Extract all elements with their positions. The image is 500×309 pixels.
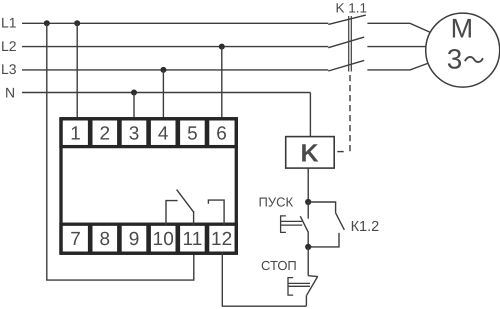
pushbutton СТОП actuator cap — [288, 278, 293, 296]
wire coil K to node A — [307, 168, 309, 202]
contact K1.2 blade — [336, 213, 345, 230]
pushbutton СТОП fixed contact tick — [308, 275, 318, 278]
contactor K1.1 blade L2 — [328, 37, 364, 48]
relay device outer box — [61, 119, 236, 253]
wire node B to СТОП — [307, 247, 309, 276]
svg-text:L2: L2 — [1, 38, 17, 54]
svg-text:7: 7 — [70, 229, 81, 250]
motor tilde symbol — [465, 57, 483, 62]
pushbutton ПУСК blade — [300, 216, 308, 232]
terminal strip bottom row dividers — [90, 224, 207, 253]
contact K1.2 top wire — [308, 202, 335, 213]
wire L1 to motor — [367, 23, 431, 32]
motor M circle — [426, 13, 500, 87]
pushbutton СТОП bottom terminal — [305, 296, 307, 307]
svg-text:N: N — [5, 84, 15, 100]
wire N to terminal 3 — [133, 93, 135, 119]
svg-text:5: 5 — [187, 124, 198, 145]
pushbutton ПУСК top terminal — [307, 202, 309, 219]
wire L2 to terminal 6 — [221, 47, 223, 118]
contact K1.2 bottom wire — [308, 233, 339, 247]
terminal strip top row dividers — [90, 119, 207, 147]
pushbutton ПУСК bottom terminal — [307, 232, 309, 247]
svg-text:2: 2 — [100, 124, 111, 145]
pushbutton СТОП blade — [306, 276, 317, 295]
svg-text:11: 11 — [183, 229, 203, 250]
wire N bus — [22, 92, 310, 94]
svg-text:3: 3 — [447, 43, 463, 74]
wire L3 to motor — [367, 63, 428, 70]
contactor K1.1 blade L3 — [328, 60, 364, 71]
wire L2 bus — [22, 46, 328, 48]
svg-text:L3: L3 — [1, 61, 17, 77]
internal changeover contact: terminal 12 fixed contact — [208, 200, 224, 225]
terminal strip bottom row box — [61, 224, 236, 253]
svg-text:L1: L1 — [1, 15, 17, 31]
wire L3 to terminal 4 — [162, 70, 164, 118]
wire L2 to motor — [367, 46, 426, 48]
junction dot node B — [305, 244, 311, 250]
internal changeover contact: terminal 10 fixed contact — [166, 201, 178, 225]
svg-text:M: M — [451, 14, 474, 44]
svg-text:12: 12 — [211, 229, 232, 250]
junction dot L3-terminal4 — [160, 67, 166, 73]
svg-text:ПУСК: ПУСК — [259, 195, 294, 210]
dash from coil K to link line — [337, 151, 343, 153]
pushbutton ПУСК actuator cap — [281, 216, 286, 233]
junction dot N-terminal3 — [131, 90, 137, 96]
svg-text:3: 3 — [129, 124, 140, 145]
wire L3 bus — [22, 69, 328, 71]
pushbutton СТОП actuator rod — [288, 283, 310, 286]
svg-text:К1.2: К1.2 — [351, 219, 380, 235]
internal changeover contact: terminal 11 riser — [193, 211, 195, 225]
wire L1 to terminal 11 (left bypass) — [47, 23, 194, 280]
junction dot node A — [305, 199, 311, 205]
junction dot L1-terminal1 — [74, 20, 80, 26]
wire L1 to terminal 1 — [76, 23, 78, 118]
contactor K1.1 blade L1 — [328, 15, 366, 24]
contactor K1.1 mechanical link bars — [349, 16, 352, 72]
svg-text:1: 1 — [70, 124, 81, 145]
svg-text:8: 8 — [100, 229, 111, 250]
pushbutton ПУСК actuator rod — [281, 221, 303, 225]
svg-text:СТОП: СТОП — [261, 258, 297, 273]
svg-text:9: 9 — [129, 229, 140, 250]
junction dot L1-left — [44, 20, 50, 26]
coil K box — [286, 137, 335, 169]
contactor K1.1 dashed link to coil — [349, 75, 351, 152]
junction dot L2-terminal6 — [219, 44, 225, 50]
svg-text:K 1.1: K 1.1 — [336, 0, 368, 15]
svg-text:6: 6 — [216, 124, 227, 145]
terminal strip top row box — [61, 119, 236, 147]
internal changeover contact: movable blade — [177, 190, 194, 213]
svg-text:4: 4 — [158, 124, 169, 145]
svg-text:10: 10 — [153, 229, 174, 250]
wire СТОП to terminal 12 — [222, 252, 306, 306]
wire L1 bus — [22, 22, 328, 24]
svg-text:K: K — [300, 139, 318, 167]
wire N to coil K — [309, 93, 311, 137]
